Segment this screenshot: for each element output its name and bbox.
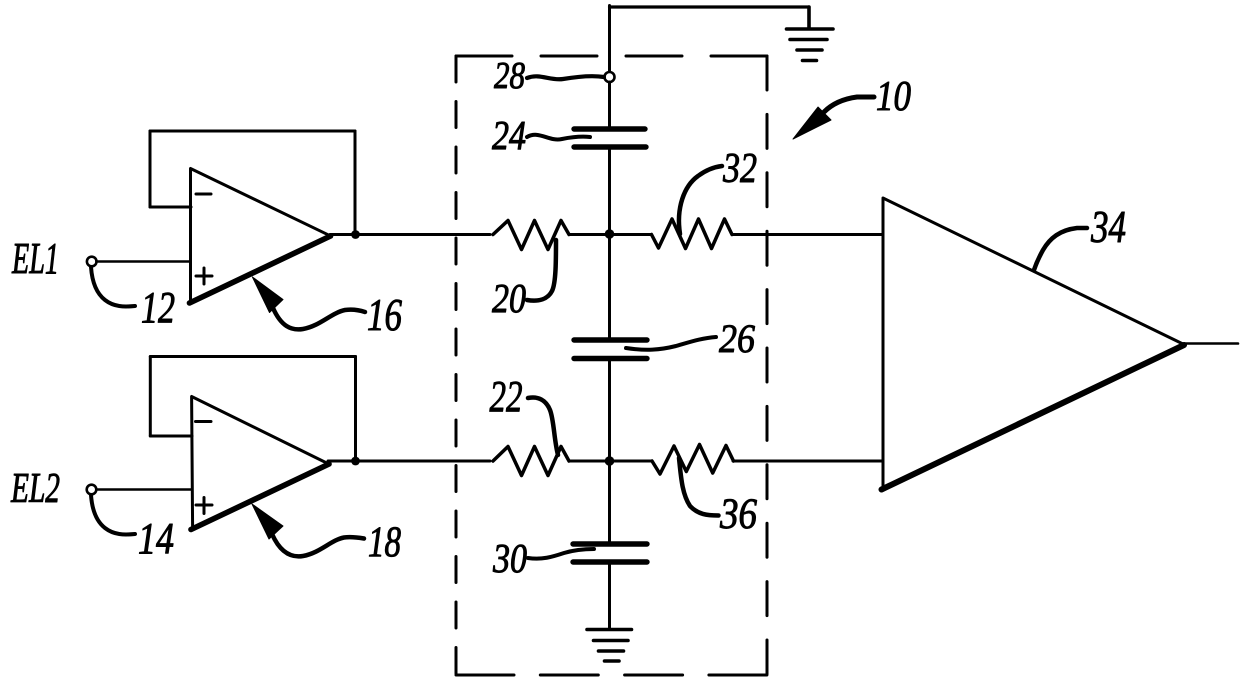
wire: amplifier 34 output (1183, 342, 1238, 345)
op-amp U1 minus input sign (196, 193, 211, 196)
svg-text:20: 20 (492, 275, 526, 321)
resistor R22 (493, 447, 569, 476)
terminal 12 (EL1 input, open circle) (87, 257, 97, 267)
op-amp U2 (buffer 18) triangle (191, 397, 329, 530)
svg-text:14: 14 (138, 514, 174, 563)
label 20 with leader (492, 240, 556, 321)
wire: resistor 20 to resistor 32 through node A (569, 233, 652, 236)
svg-text:36: 36 (719, 491, 757, 538)
capacitor C24 (574, 129, 646, 147)
ground symbol (top right) (787, 7, 834, 61)
capacitor C30 (573, 544, 647, 562)
svg-text:EL2: EL2 (10, 466, 60, 512)
label 30 with leader (492, 535, 594, 581)
label 34 with leader (1034, 202, 1126, 270)
label 22 with leader (490, 372, 559, 455)
label 18 with arrow to U2 (252, 504, 401, 566)
wire: EL1 terminal to U1 non-inverting input (97, 260, 191, 263)
label 24 with leader (492, 112, 590, 158)
svg-text:12: 12 (141, 283, 175, 332)
label 36 with leader (679, 458, 757, 538)
wire: EL2 terminal to U2 non-inverting input (96, 488, 191, 491)
wire: U2 output to resistor 22 (328, 460, 490, 463)
svg-text:26: 26 (719, 316, 755, 361)
op-amp U2 minus input sign (196, 420, 212, 423)
wire: node 28 up and across to top-right ground (610, 5, 810, 8)
label 12 with leader (91, 267, 175, 332)
label 14 with leader (91, 495, 174, 563)
node: U2 output junction dot (351, 457, 360, 466)
wire: U1 output to resistor 20 (330, 233, 490, 236)
svg-text:10: 10 (876, 74, 911, 120)
svg-text:16: 16 (367, 290, 402, 340)
node A junction dot (top wire crossing) (605, 229, 615, 239)
amplifier U3 (34) triangle (882, 198, 1185, 490)
label 26 with leader (626, 316, 755, 361)
wire: capacitor 24 to node A (608, 150, 611, 339)
wire: capacitor 30 to bottom ground (608, 564, 611, 629)
svg-text:18: 18 (368, 519, 401, 566)
resistor R32 (652, 219, 733, 249)
op-amp U2 feedback loop wires (150, 357, 355, 461)
wire: capacitor 26 to node B (608, 361, 611, 543)
terminal 14 (EL2 input, open circle) (87, 485, 97, 495)
op-amp U1 (buffer 16) triangle (190, 169, 331, 304)
dashed box: filter network 10 boundary (456, 56, 767, 675)
label EL1 (input net) (11, 234, 59, 283)
svg-text:EL1: EL1 (11, 234, 59, 283)
svg-text:28: 28 (494, 55, 525, 97)
wire: resistor 32 to amplifier 34 top input (732, 233, 883, 236)
label 28 with leader (494, 55, 604, 97)
op-amp U1 feedback loop wires (150, 131, 355, 233)
capacitor C26 (574, 340, 647, 359)
node B junction dot (bottom wire crossing) (605, 456, 615, 466)
ground symbol (bottom center) (587, 630, 632, 662)
svg-text:34: 34 (1090, 202, 1126, 252)
svg-text:30: 30 (492, 535, 527, 581)
op-amp U2 plus input sign (196, 498, 212, 514)
label EL2 (input net) (10, 466, 60, 512)
resistor R20 (493, 221, 569, 250)
wire: top wire down to node 28 (608, 6, 611, 73)
wire: resistor 22 to resistor 36 through node B (569, 460, 652, 463)
label 10 with arrow to dashed box (793, 74, 911, 139)
wire: resistor 36 to amplifier 34 bottom input (733, 460, 883, 463)
node: U1 output junction dot (351, 230, 360, 239)
node 28 (open terminal) (605, 72, 615, 82)
op-amp U1 plus input sign (196, 268, 212, 284)
label 32 with leader (679, 146, 757, 234)
wire: node 28 to capacitor 24 (608, 82, 611, 127)
label 16 with arrow to U1 (252, 277, 402, 340)
resistor R36 (652, 445, 734, 475)
svg-text:32: 32 (722, 146, 757, 192)
svg-text:24: 24 (492, 112, 526, 158)
svg-text:22: 22 (490, 372, 523, 421)
